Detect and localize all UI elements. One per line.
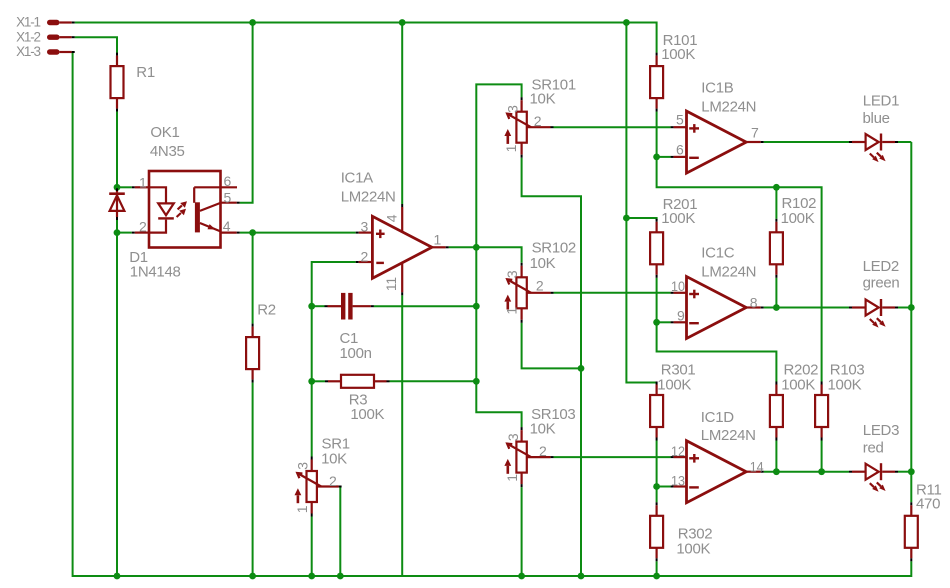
wire: output node up to SR101 pin3 — [476, 84, 521, 247]
svg-text:1: 1 — [503, 144, 519, 152]
wire: pin13 node down to R302 top — [656, 487, 658, 503]
wire: node to OK1 pin1 — [117, 186, 132, 188]
svg-text:10K: 10K — [530, 91, 556, 108]
svg-text:LED2: LED2 — [863, 258, 899, 275]
wire: SR1 pin1 to rail — [311, 517, 313, 577]
wire: OK1 pin4 to IC1A pin3 — [240, 232, 356, 234]
svg-text:13: 13 — [671, 473, 685, 489]
wire: SR102 wiper to IC1C pin10 — [554, 292, 671, 294]
junction: rail at x=581 — [578, 573, 585, 580]
wire: +V drop to OK1 pin5 — [240, 23, 253, 203]
op-amp IC1A — [341, 169, 449, 295]
resistor R11 — [905, 481, 942, 561]
svg-text:2: 2 — [536, 277, 544, 293]
resistor R3 — [325, 375, 390, 423]
svg-text:2: 2 — [539, 443, 547, 459]
svg-text:IC1C: IC1C — [701, 245, 734, 262]
wire: R1 bottom to D1/OK1 pin1 node — [116, 112, 118, 188]
wire: output node down to SR103 pin3 — [476, 247, 521, 427]
wire: C1 right to output node — [374, 305, 476, 307]
wire: SR102 pin1 to ground bus — [522, 323, 581, 369]
svg-text:470: 470 — [916, 495, 940, 512]
wire: X1-2 to R1 top — [75, 37, 117, 53]
wire: pin9 node to R202 top — [657, 322, 777, 381]
svg-text:LED1: LED1 — [863, 92, 899, 109]
svg-text:LM224N: LM224N — [701, 99, 756, 116]
wire: LED3 cathode to bus — [898, 471, 911, 473]
svg-text:1: 1 — [294, 505, 310, 513]
wire: SR101 pin1 down to ground bus — [522, 158, 581, 576]
svg-text:1: 1 — [434, 231, 442, 247]
wire: feedback node down to R102 top — [775, 187, 777, 219]
svg-text:100K: 100K — [781, 377, 815, 394]
svg-text:7: 7 — [751, 125, 759, 141]
svg-text:X1-3: X1-3 — [16, 44, 40, 59]
wire: emitter node down to R2 top — [252, 233, 254, 324]
wire: SR103 pin1 to rail — [521, 487, 523, 576]
junction: cathode bus at LED2 — [908, 304, 915, 311]
svg-text:11: 11 — [383, 277, 399, 291]
junction: rail at x=252.6 — [249, 573, 256, 580]
svg-text:R2: R2 — [257, 301, 276, 318]
trimmer SR102 — [503, 239, 576, 322]
junction: ground bus at SR102 pin1 — [578, 365, 585, 372]
junction: IC1C output at R102 — [773, 304, 780, 311]
junction: top rail at x=252.6 — [249, 19, 256, 26]
trimmer SR1 — [294, 435, 350, 516]
connector pad X1-2 — [16, 29, 75, 44]
wire: pin9 node to IC1C pin9 — [657, 321, 671, 323]
svg-text:10K: 10K — [321, 451, 347, 468]
svg-text:OK1: OK1 — [150, 124, 179, 141]
junction: output node at R3 row — [473, 378, 480, 385]
junction: IC1D output at R103 — [818, 468, 825, 475]
junction: D1 anode node — [114, 229, 121, 236]
resistor R302 — [650, 502, 712, 561]
svg-text:LM224N: LM224N — [701, 427, 756, 444]
svg-text:8: 8 — [750, 294, 758, 310]
wire: IC1D output to LED3 anode — [764, 471, 849, 473]
svg-text:blue: blue — [863, 110, 890, 127]
op-amp IC1C — [671, 245, 764, 339]
svg-text:X1-2: X1-2 — [16, 29, 40, 44]
svg-text:4: 4 — [384, 214, 400, 222]
svg-text:100K: 100K — [828, 377, 862, 394]
svg-text:6: 6 — [224, 173, 232, 189]
resistor R2 — [246, 301, 276, 382]
svg-text:IC1B: IC1B — [701, 79, 733, 96]
wire: LED cathode bus down to R11 — [910, 142, 912, 502]
junction: IC1D pin13 node — [653, 483, 660, 490]
svg-text:2: 2 — [329, 473, 337, 489]
wire: LED2 cathode to bus — [898, 307, 911, 309]
connector pad X1-3 — [16, 44, 75, 59]
svg-text:10: 10 — [671, 278, 685, 294]
svg-text:1: 1 — [504, 474, 520, 482]
junction: +V drop at R201 branch — [623, 215, 630, 222]
junction: rail at x=340.3 — [337, 573, 344, 580]
svg-text:100K: 100K — [661, 210, 695, 227]
diode D1 — [109, 188, 180, 280]
junction: top rail at x=626.4 — [623, 19, 630, 26]
connector pad X1-1 — [16, 15, 75, 30]
svg-text:1N4148: 1N4148 — [130, 263, 181, 280]
svg-text:100K: 100K — [350, 406, 384, 423]
svg-text:10K: 10K — [530, 420, 556, 437]
wire: R201 bottom to IC1C pin9 node — [656, 278, 658, 323]
svg-text:IC1A: IC1A — [341, 169, 373, 186]
wire: pin6 node to IC1B pin6 — [657, 156, 671, 158]
LED2 — [849, 258, 899, 328]
svg-text:6: 6 — [676, 141, 684, 157]
wire: pin2 node to C1 left — [312, 305, 325, 307]
junction: IC1D output at R202 — [773, 468, 780, 475]
wire: IC1B output to LED1 anode — [764, 141, 849, 143]
wire: IC1C output to LED2 anode — [764, 307, 849, 309]
svg-text:4N35: 4N35 — [150, 143, 185, 160]
junction: rail at x=311.7 — [308, 573, 315, 580]
svg-text:X1-1: X1-1 — [16, 15, 40, 30]
wire: R302 bottom to rail — [656, 561, 658, 576]
wire: LED1 cathode to cathode bus — [898, 141, 911, 143]
junction: rail at x=521.6 — [518, 573, 525, 580]
wire: +V drop to R201 and R301 — [626, 23, 656, 383]
svg-text:LM224N: LM224N — [341, 188, 396, 205]
svg-text:2: 2 — [534, 113, 542, 129]
junction: pin2 node at C1 row — [308, 303, 315, 310]
wire: R101 bottom to IC1B pin6 node — [656, 112, 658, 157]
resistor R201 — [650, 196, 697, 278]
wire: R103 bottom to IC1D output — [821, 441, 823, 472]
svg-text:LED3: LED3 — [863, 422, 899, 439]
svg-text:SR102: SR102 — [532, 239, 576, 256]
svg-text:2: 2 — [361, 248, 369, 264]
svg-text:100K: 100K — [781, 210, 815, 227]
svg-text:green: green — [863, 275, 900, 292]
LED1 — [849, 92, 899, 162]
resistor R102 — [770, 195, 816, 278]
wire: D1 anode node down to ground rail — [116, 230, 118, 576]
wire: R301 bottom to IC1D pin13 node — [656, 441, 658, 487]
svg-text:1: 1 — [503, 307, 519, 315]
trimmer SR103 — [504, 406, 576, 487]
junction: feedback run at R102 — [773, 184, 780, 191]
svg-text:3: 3 — [505, 105, 521, 113]
wire: R2 bottom to rail — [252, 383, 254, 576]
wire: R3 right to output node — [390, 380, 477, 382]
svg-text:100n: 100n — [340, 345, 372, 362]
resistor R1 — [111, 53, 155, 112]
svg-text:5: 5 — [224, 189, 232, 205]
svg-text:100K: 100K — [676, 541, 710, 558]
junction: output node at C1 row — [473, 303, 480, 310]
svg-text:4: 4 — [223, 218, 231, 234]
optocoupler OK1 — [132, 124, 240, 247]
junction: IC1A output node — [473, 244, 480, 251]
wire: SR1 wiper to rail — [339, 487, 341, 577]
resistor R101 — [650, 32, 697, 112]
junction: IC1C pin9 node — [653, 319, 660, 326]
svg-text:3: 3 — [361, 218, 369, 234]
wire: +V top rail from X1-1 to R101 — [75, 23, 657, 53]
svg-text:14: 14 — [750, 459, 764, 475]
svg-text:3: 3 — [504, 270, 520, 278]
svg-text:9: 9 — [677, 308, 685, 324]
svg-text:10K: 10K — [530, 255, 556, 272]
svg-text:5: 5 — [676, 112, 684, 128]
wire: pin6 node feedback run to R103 top — [657, 157, 822, 382]
svg-text:12: 12 — [671, 443, 685, 459]
wire: IC1A output to SR102 pin3 — [449, 247, 522, 262]
wire: IC1A pin2 node down to SR1 pin3 — [312, 262, 356, 457]
LED3 — [849, 422, 899, 492]
wire: SR101 wiper to IC1B pin5 — [554, 126, 671, 128]
resistor R103 — [815, 362, 864, 441]
svg-text:3: 3 — [294, 462, 310, 470]
junction: cathode bus at LED3 — [908, 468, 915, 475]
wire: node to OK1 pin2 — [117, 232, 132, 234]
wire: ground rail from X1-3 to R11 — [73, 52, 912, 576]
junction: rail at x=117 — [114, 573, 121, 580]
svg-text:3: 3 — [505, 433, 521, 441]
wire: +V drop to IC1A pin4 — [401, 23, 403, 205]
wire: pin2 node to R3 left — [312, 380, 325, 382]
junction: pin2 node at R3 row — [308, 378, 315, 385]
junction: top rail at x=402.2 — [399, 19, 406, 26]
junction: rail at x=656.6 — [653, 573, 660, 580]
svg-text:100K: 100K — [661, 46, 695, 63]
junction: emitter node to R2 — [249, 229, 256, 236]
wire: R102 bottom to IC1C output row — [775, 278, 777, 308]
wire: R202 bottom to IC1D output — [775, 441, 777, 472]
svg-text:2: 2 — [139, 218, 147, 234]
svg-text:100K: 100K — [657, 377, 691, 394]
wire: +V branch to R201 top — [626, 218, 656, 220]
wire: SR103 wiper to IC1D pin12 — [554, 456, 671, 458]
svg-text:red: red — [863, 440, 884, 457]
svg-text:R1: R1 — [136, 64, 155, 81]
trimmer SR101 — [503, 76, 576, 157]
svg-text:LM224N: LM224N — [701, 264, 756, 281]
capacitor C1 — [325, 293, 374, 362]
junction: IC1B pin6 node — [653, 154, 660, 161]
op-amp IC1B — [671, 79, 764, 173]
svg-text:IC1D: IC1D — [701, 409, 734, 426]
resistor R202 — [770, 362, 818, 441]
op-amp IC1D — [671, 409, 764, 503]
resistor R301 — [650, 362, 695, 441]
wire: pin13 node to IC1D pin13 — [657, 486, 671, 488]
junction: D1 cathode node — [114, 184, 121, 191]
wire: IC1A pin11 down to rail — [401, 295, 403, 576]
svg-text:1: 1 — [139, 175, 147, 191]
